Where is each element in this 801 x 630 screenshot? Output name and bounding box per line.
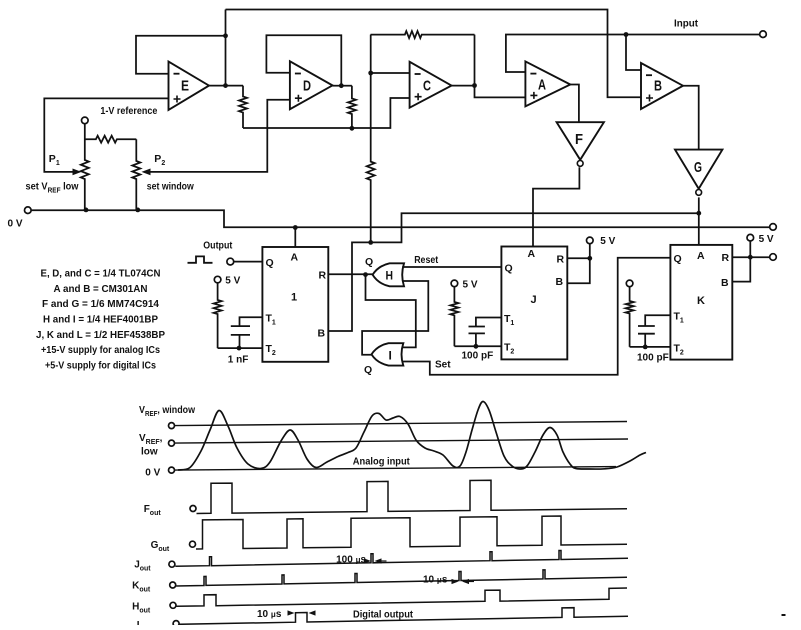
svg-text:R: R	[319, 270, 327, 282]
svg-text:H and I = 1/4 HEF4001BP: H and I = 1/4 HEF4001BP	[43, 314, 158, 326]
svg-text:0 V: 0 V	[8, 219, 23, 230]
svg-text:E: E	[181, 78, 189, 95]
svg-text:F and G = 1/6 MM74C914: F and G = 1/6 MM74C914	[42, 298, 159, 310]
svg-text:A: A	[528, 248, 536, 260]
svg-text:A and B = CM301AN: A and B = CM301AN	[54, 283, 148, 295]
svg-text:+5-V supply for digital ICs: +5-V supply for digital ICs	[45, 360, 156, 372]
svg-text:5 V: 5 V	[225, 276, 240, 287]
svg-text:I: I	[137, 620, 140, 625]
svg-text:Q: Q	[365, 256, 373, 268]
svg-text:E, D, and C = 1/4 TL074CN: E, D, and C = 1/4 TL074CN	[41, 268, 161, 280]
svg-text:C: C	[423, 78, 431, 95]
svg-text:B: B	[654, 78, 662, 95]
svg-text:100 pF: 100 pF	[462, 351, 494, 362]
svg-text:G: G	[694, 159, 702, 176]
svg-text:100 μs: 100 μs	[336, 555, 366, 566]
svg-text:0 V: 0 V	[145, 468, 160, 479]
svg-text:Reset: Reset	[414, 255, 439, 266]
svg-text:J: J	[531, 294, 537, 306]
svg-text:Q: Q	[266, 257, 274, 269]
svg-text:H: H	[386, 269, 394, 283]
svg-text:Digital output: Digital output	[353, 610, 414, 621]
svg-text:+15-V supply for analog ICs: +15-V supply for analog ICs	[41, 344, 160, 356]
svg-text:10 μs: 10 μs	[257, 609, 282, 620]
svg-text:5 V: 5 V	[600, 236, 615, 247]
svg-text:Q: Q	[364, 364, 372, 376]
svg-text:A: A	[697, 250, 705, 262]
svg-text:100 pF: 100 pF	[637, 353, 669, 364]
svg-text:1: 1	[291, 292, 297, 304]
svg-text:Q: Q	[505, 263, 513, 275]
svg-text:Set: Set	[435, 360, 451, 371]
svg-text:B: B	[721, 277, 729, 289]
svg-text:I: I	[389, 349, 392, 363]
svg-text:10 μs: 10 μs	[423, 575, 448, 586]
svg-text:5 V: 5 V	[759, 234, 774, 245]
svg-text:R: R	[557, 254, 565, 266]
svg-text:Analog input: Analog input	[353, 457, 411, 468]
svg-text:Q: Q	[674, 253, 682, 265]
svg-text:B: B	[318, 328, 326, 340]
svg-text:Input: Input	[674, 18, 698, 30]
svg-text:B: B	[556, 276, 564, 288]
svg-text:A: A	[291, 252, 299, 264]
svg-text:J, K and L = 1/2 HEF4538BP: J, K and L = 1/2 HEF4538BP	[36, 329, 165, 341]
svg-text:Output: Output	[203, 241, 233, 252]
svg-text:1 nF: 1 nF	[228, 355, 249, 366]
svg-text:low: low	[141, 447, 158, 458]
svg-text:R: R	[722, 252, 730, 264]
svg-text:set window: set window	[147, 182, 194, 193]
svg-text:D: D	[303, 78, 311, 95]
svg-text:1-V reference: 1-V reference	[100, 106, 157, 117]
svg-text:A: A	[538, 77, 546, 94]
svg-text:K: K	[697, 295, 705, 307]
svg-text:F: F	[575, 131, 583, 148]
svg-text:5 V: 5 V	[463, 280, 478, 291]
